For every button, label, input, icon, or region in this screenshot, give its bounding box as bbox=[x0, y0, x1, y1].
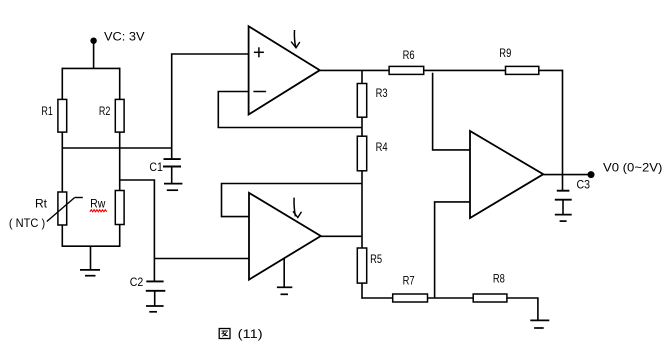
wire (U2 output) bbox=[321, 235, 362, 237]
wire (bottom rail R5 to R7) bbox=[362, 297, 393, 299]
ground (after R8) bbox=[530, 320, 549, 328]
wire (R1 top lead) bbox=[61, 68, 63, 100]
svg-text:V0 (0~2V): V0 (0~2V) bbox=[603, 161, 662, 175]
svg-text:C2: C2 bbox=[130, 275, 144, 289]
wire (R6 to R9) bbox=[424, 69, 506, 71]
wire (U1 inverting input feedback) bbox=[218, 92, 362, 128]
wire (U1 output) bbox=[320, 69, 389, 71]
node V0 (output dot) bbox=[588, 171, 595, 178]
svg-text:R6: R6 bbox=[403, 48, 415, 62]
wire (R5 bottom lead) bbox=[361, 283, 363, 299]
resistor Rw bbox=[90, 191, 124, 225]
svg-text:R4: R4 bbox=[376, 140, 388, 154]
op-amp U2 bbox=[249, 193, 321, 280]
svg-text:R3: R3 bbox=[376, 86, 388, 100]
wire (bridge right midpoint tap) bbox=[120, 180, 155, 281]
wire (R4 to R5) bbox=[361, 171, 363, 248]
wire (R9 to output node riser) bbox=[539, 69, 563, 71]
resistor R7 bbox=[393, 274, 428, 303]
ground (below C2) bbox=[146, 291, 164, 312]
resistor R9 bbox=[499, 46, 539, 74]
ground (bridge) bbox=[80, 246, 100, 276]
resistor R1 bbox=[41, 99, 66, 132]
capacitor C2 bbox=[130, 275, 166, 291]
wire (feedback riser to output) bbox=[562, 70, 564, 191]
svg-text:R9: R9 bbox=[499, 46, 511, 60]
wire (R1 to Rt) bbox=[61, 132, 63, 192]
resistor R4 bbox=[357, 136, 388, 171]
capacitor C3 bbox=[555, 178, 590, 200]
ground (below C1) bbox=[164, 167, 182, 191]
svg-text:R8: R8 bbox=[493, 272, 505, 286]
svg-text:C3: C3 bbox=[577, 178, 591, 192]
svg-text:(11): (11) bbox=[238, 329, 263, 341]
svg-text:R2: R2 bbox=[99, 104, 111, 118]
wire (U3 output to node V0) bbox=[543, 174, 590, 176]
svg-text:VC: 3V: VC: 3V bbox=[104, 30, 145, 44]
op-amp U1 bbox=[249, 26, 320, 114]
wire (C1 riser to op-amp U1 + input) bbox=[172, 54, 249, 159]
wire (VC stem) bbox=[93, 43, 95, 68]
resistor Rt (NTC thermistor) bbox=[9, 192, 83, 230]
node VC (supply dot) bbox=[90, 38, 96, 44]
wire (R3 top lead) bbox=[361, 70, 363, 83]
wire (bottom bridge link) bbox=[62, 245, 121, 247]
wire (drop to U3 + input) bbox=[433, 73, 470, 150]
wire (R2 top lead) bbox=[119, 68, 121, 100]
wire (R7 to R8) bbox=[428, 297, 474, 299]
svg-text:Rt: Rt bbox=[35, 197, 48, 211]
wire (riser to U3 - input) bbox=[435, 202, 470, 298]
wire (bridge left midpoint tap to C1) bbox=[62, 147, 171, 149]
wire (R3 to R4) bbox=[361, 117, 363, 136]
svg-text:R5: R5 bbox=[370, 252, 382, 266]
wire (R2 to Rw) bbox=[119, 132, 121, 190]
ground (below C3) bbox=[555, 200, 572, 221]
wire (U2 feedback from R4/R5 junction) bbox=[222, 184, 363, 217]
label caption 图(11) bbox=[219, 329, 263, 342]
resistor R6 bbox=[389, 48, 424, 74]
svg-text:C1: C1 bbox=[149, 160, 163, 174]
svg-text:Rw: Rw bbox=[90, 197, 105, 211]
svg-text:R7: R7 bbox=[403, 274, 415, 288]
resistor R8 bbox=[473, 272, 507, 303]
wire (to op-amp U2 lower input) bbox=[154, 258, 249, 260]
ground (U2) bbox=[277, 259, 292, 294]
svg-text:R1: R1 bbox=[41, 104, 53, 118]
svg-text:( NTC ): ( NTC ) bbox=[9, 216, 45, 230]
wire (Rt bottom lead) bbox=[61, 225, 63, 246]
wire (Rw bottom lead) bbox=[119, 225, 121, 247]
wire (R8 to ground) bbox=[507, 298, 538, 320]
resistor R2 bbox=[99, 99, 124, 132]
capacitor C1 bbox=[149, 159, 181, 174]
wire (top rail) bbox=[62, 67, 119, 69]
resistor R5 bbox=[357, 248, 382, 283]
op-amp U3 bbox=[470, 131, 543, 218]
resistor R3 bbox=[357, 84, 388, 118]
